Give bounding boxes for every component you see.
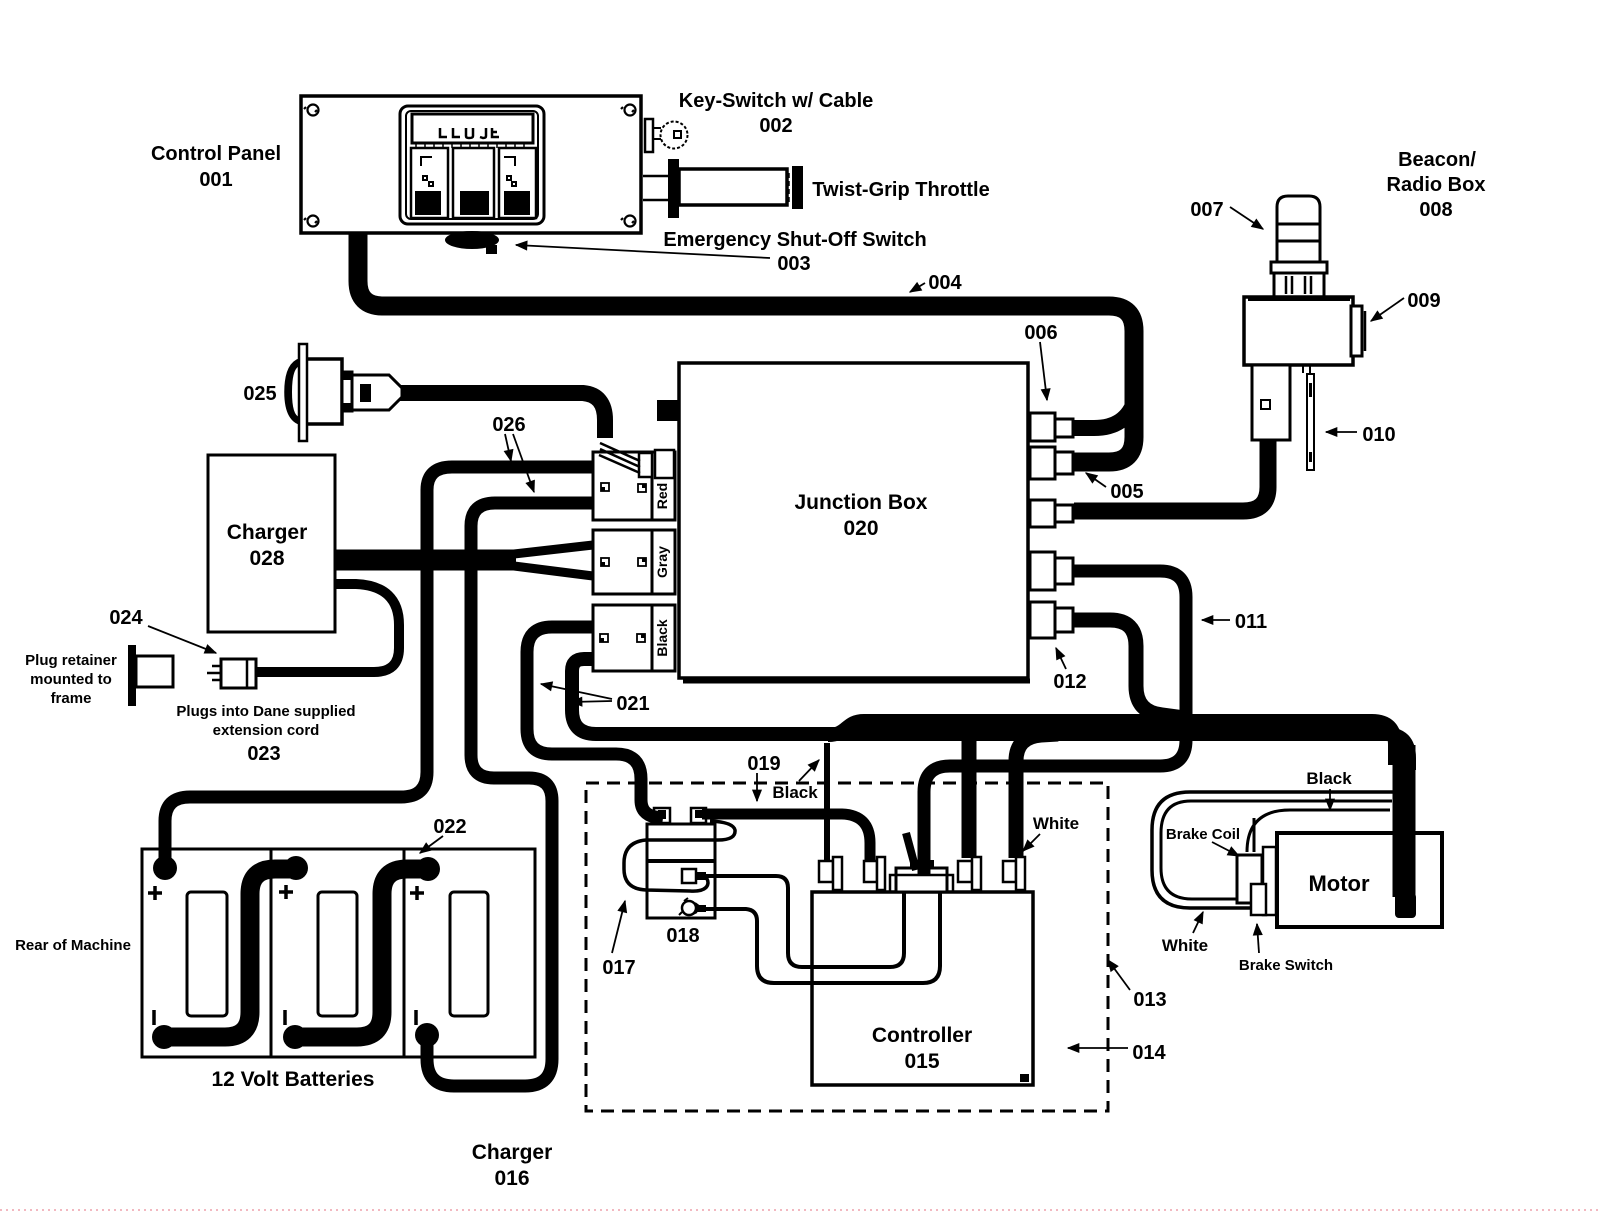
svg-text:Motor: Motor bbox=[1308, 871, 1370, 896]
svg-text:frame: frame bbox=[51, 690, 92, 707]
svg-text:002: 002 bbox=[759, 115, 792, 137]
svg-text:018: 018 bbox=[666, 925, 699, 947]
svg-text:Control Panel: Control Panel bbox=[151, 143, 281, 165]
svg-text:Charger: Charger bbox=[227, 521, 308, 544]
svg-text:White: White bbox=[1033, 814, 1079, 833]
svg-text:Plug retainer: Plug retainer bbox=[25, 652, 117, 669]
svg-text:021: 021 bbox=[616, 693, 649, 715]
svg-text:011: 011 bbox=[1235, 611, 1267, 633]
svg-text:Black: Black bbox=[1306, 769, 1352, 788]
svg-text:004: 004 bbox=[928, 272, 962, 294]
svg-text:Emergency Shut-Off Switch: Emergency Shut-Off Switch bbox=[663, 229, 926, 251]
svg-text:001: 001 bbox=[199, 169, 232, 191]
svg-text:Gray: Gray bbox=[654, 546, 670, 578]
svg-text:Radio Box: Radio Box bbox=[1387, 174, 1486, 196]
svg-text:Rear of Machine: Rear of Machine bbox=[15, 937, 131, 954]
svg-text:Controller: Controller bbox=[872, 1024, 972, 1047]
svg-text:Brake Switch: Brake Switch bbox=[1239, 957, 1333, 974]
svg-text:Charger: Charger bbox=[472, 1141, 553, 1164]
svg-text:Black: Black bbox=[654, 619, 670, 657]
svg-text:005: 005 bbox=[1110, 481, 1143, 503]
svg-text:Junction Box: Junction Box bbox=[794, 491, 927, 514]
svg-text:Brake Coil: Brake Coil bbox=[1166, 826, 1240, 843]
svg-text:White: White bbox=[1162, 936, 1208, 955]
svg-text:028: 028 bbox=[249, 547, 284, 570]
svg-text:008: 008 bbox=[1419, 199, 1452, 221]
svg-text:026: 026 bbox=[492, 414, 525, 436]
svg-text:010: 010 bbox=[1362, 424, 1395, 446]
svg-text:Key-Switch w/ Cable: Key-Switch w/ Cable bbox=[679, 90, 874, 112]
svg-text:016: 016 bbox=[494, 1167, 529, 1190]
svg-text:007: 007 bbox=[1190, 199, 1223, 221]
svg-text:019: 019 bbox=[747, 753, 780, 775]
svg-text:Beacon/: Beacon/ bbox=[1398, 149, 1476, 171]
svg-text:013: 013 bbox=[1133, 989, 1166, 1011]
svg-text:012: 012 bbox=[1053, 671, 1086, 693]
svg-text:022: 022 bbox=[433, 816, 466, 838]
svg-text:mounted to: mounted to bbox=[30, 671, 112, 688]
svg-text:014: 014 bbox=[1132, 1042, 1166, 1064]
svg-text:009: 009 bbox=[1407, 290, 1440, 312]
svg-text:12 Volt Batteries: 12 Volt Batteries bbox=[211, 1068, 374, 1091]
svg-text:003: 003 bbox=[777, 253, 810, 275]
svg-text:Twist-Grip Throttle: Twist-Grip Throttle bbox=[812, 179, 989, 201]
svg-text:015: 015 bbox=[904, 1050, 939, 1073]
svg-text:023: 023 bbox=[247, 743, 280, 765]
svg-text:025: 025 bbox=[243, 383, 276, 405]
svg-text:extension cord: extension cord bbox=[213, 722, 320, 739]
svg-text:017: 017 bbox=[602, 957, 635, 979]
svg-text:020: 020 bbox=[843, 517, 878, 540]
svg-text:Black: Black bbox=[772, 783, 818, 802]
svg-text:Red: Red bbox=[654, 483, 670, 509]
svg-text:006: 006 bbox=[1024, 322, 1057, 344]
svg-text:Plugs into Dane supplied: Plugs into Dane supplied bbox=[176, 703, 355, 720]
svg-text:024: 024 bbox=[109, 607, 143, 629]
